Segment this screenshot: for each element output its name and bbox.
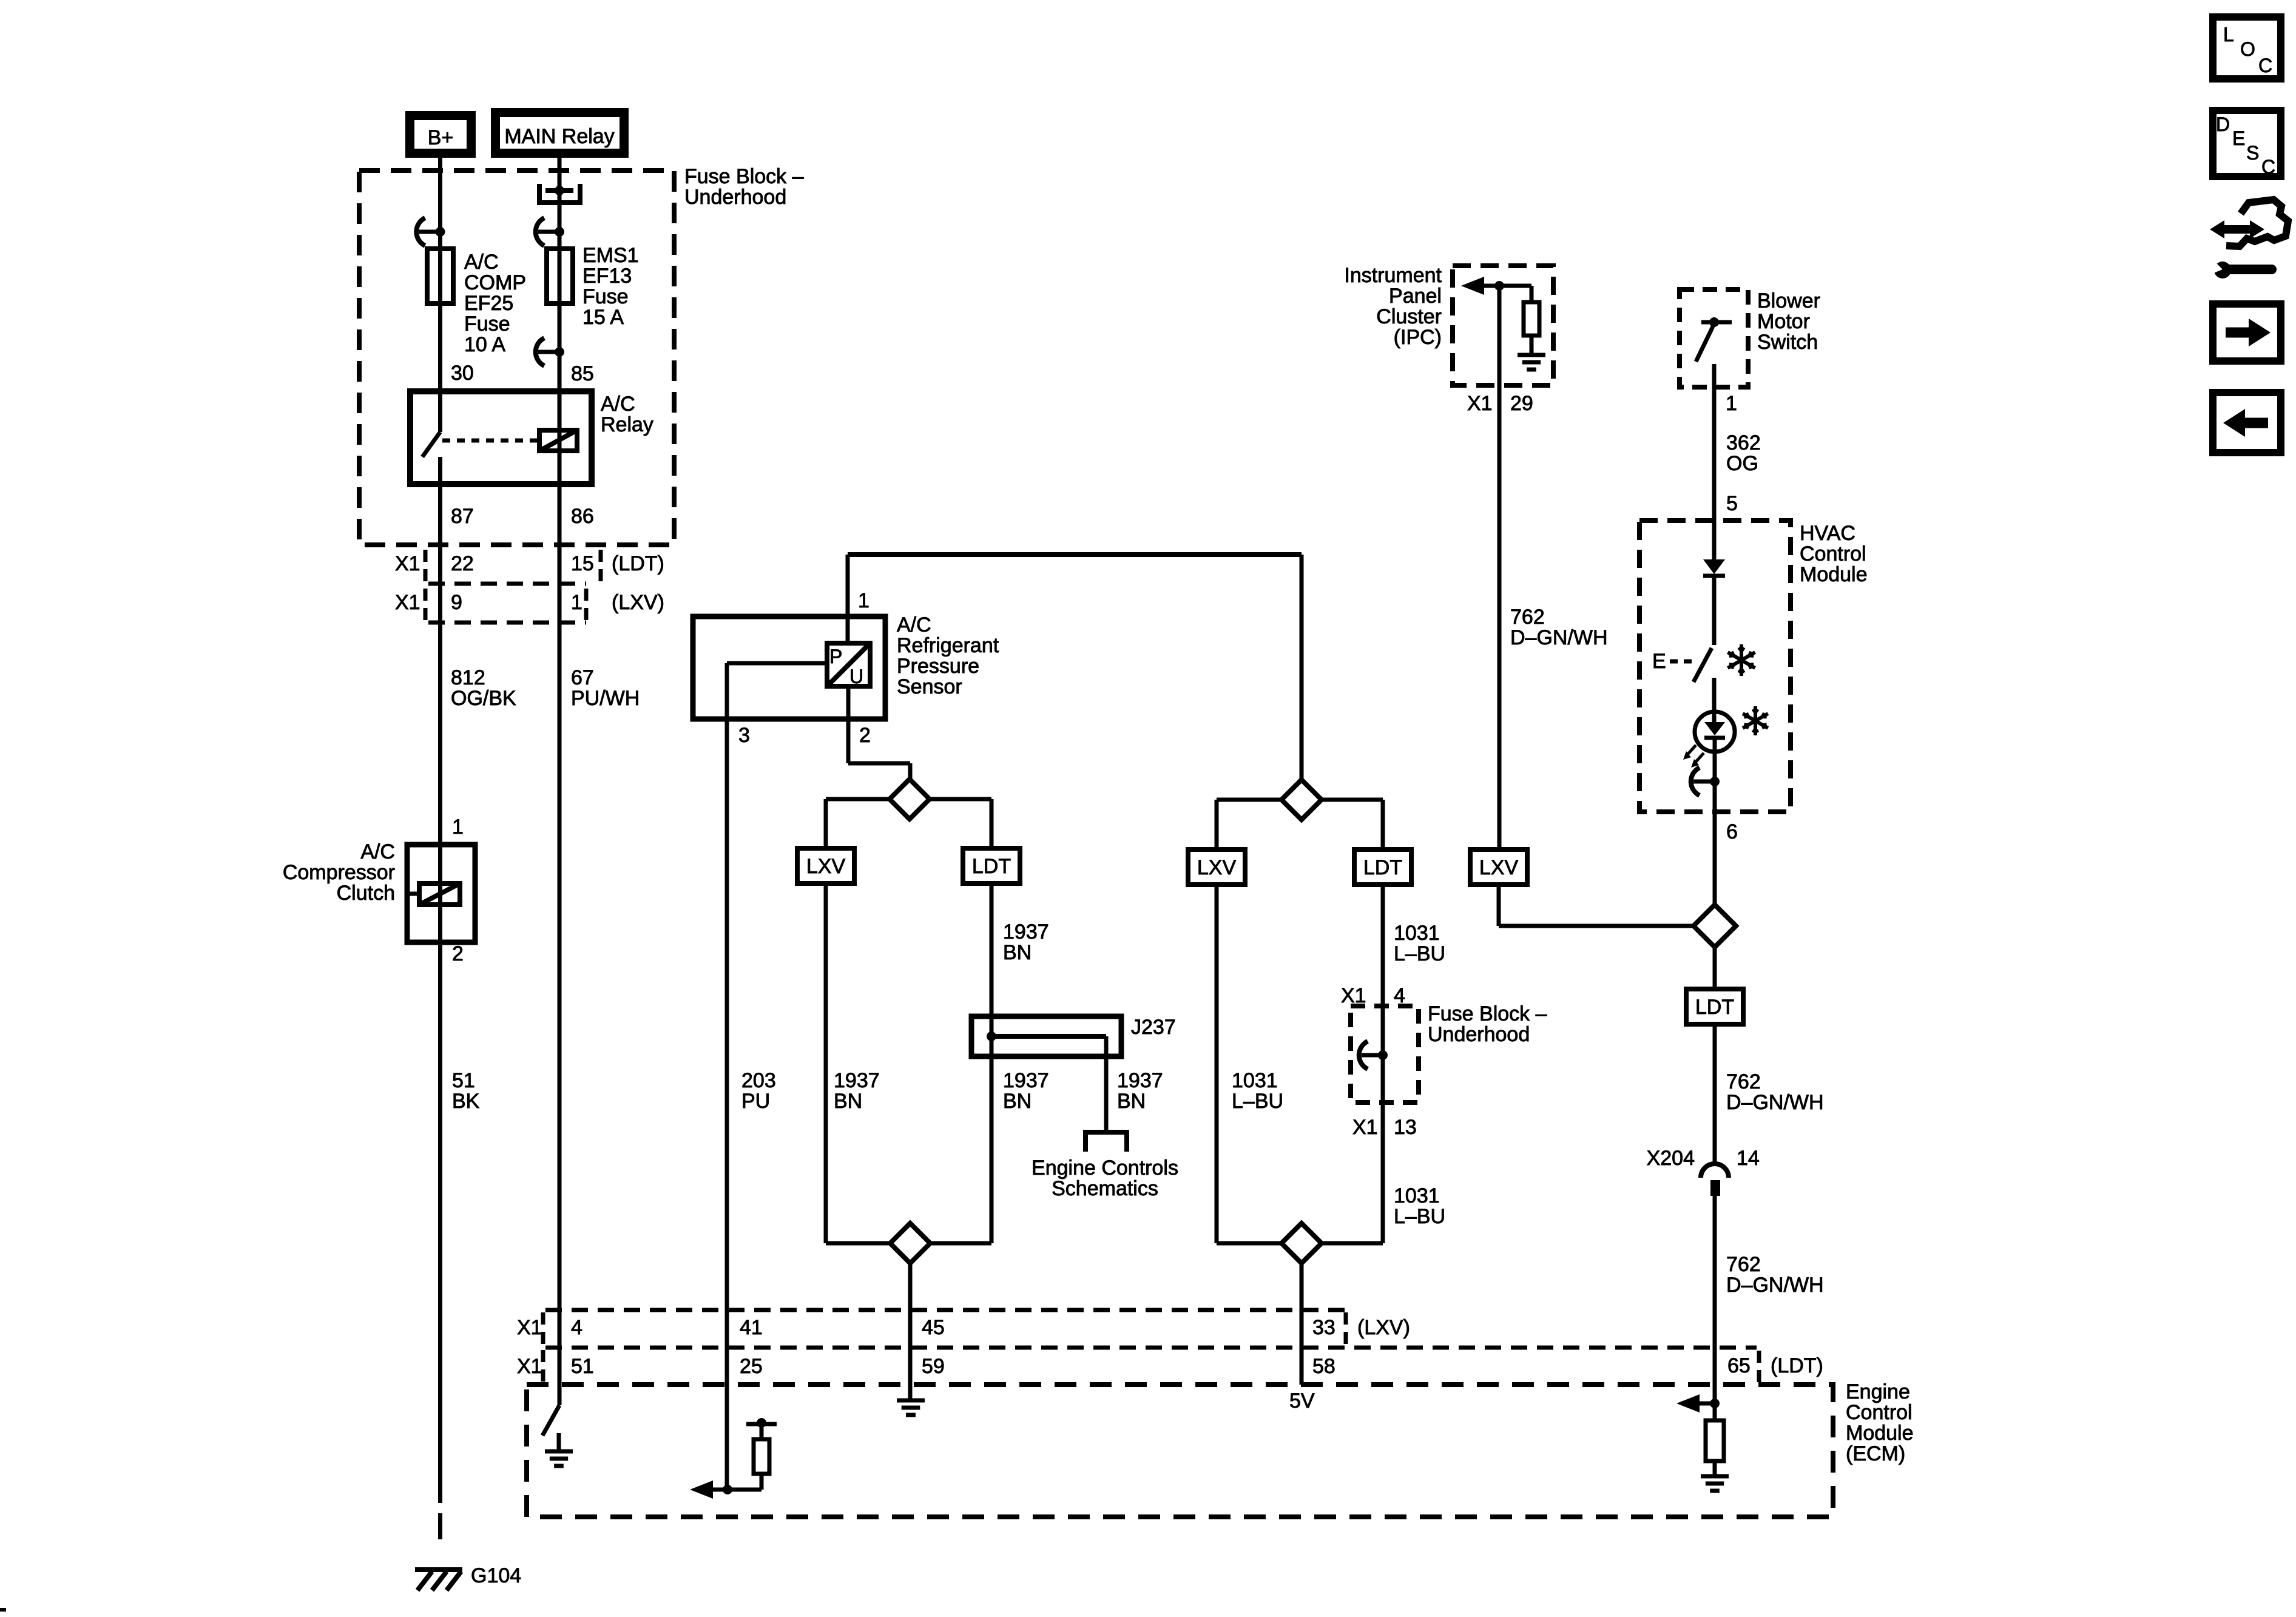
svg-text:(LDT): (LDT)	[612, 552, 664, 575]
svg-text:14: 14	[1737, 1147, 1760, 1170]
svg-text:Control: Control	[1800, 542, 1866, 565]
svg-text:13: 13	[1394, 1116, 1417, 1139]
svg-text:E: E	[2232, 127, 2245, 149]
svg-text:(LXV): (LXV)	[612, 591, 664, 614]
svg-text:X1: X1	[1352, 1116, 1378, 1139]
svg-text:(LXV): (LXV)	[1357, 1316, 1410, 1339]
svg-text:C: C	[2258, 55, 2272, 76]
svg-text:(IPC): (IPC)	[1394, 326, 1442, 349]
svg-text:BK: BK	[452, 1090, 480, 1113]
svg-text:Pressure: Pressure	[897, 655, 979, 678]
svg-text:PU: PU	[741, 1090, 770, 1113]
svg-text:5V: 5V	[1289, 1389, 1315, 1413]
svg-text:Relay: Relay	[601, 413, 653, 436]
svg-text:762: 762	[1726, 1070, 1761, 1093]
svg-text:58: 58	[1312, 1355, 1335, 1378]
svg-text:LXV: LXV	[1197, 856, 1237, 879]
svg-text:Switch: Switch	[1757, 331, 1818, 354]
svg-text:EF25: EF25	[464, 292, 513, 315]
svg-text:J237: J237	[1131, 1016, 1176, 1039]
svg-text:LXV: LXV	[806, 855, 846, 878]
svg-text:BN: BN	[834, 1090, 862, 1113]
svg-text:COMP: COMP	[464, 271, 526, 294]
svg-text:33: 33	[1312, 1316, 1335, 1339]
svg-text:41: 41	[740, 1316, 763, 1339]
svg-text:(ECM): (ECM)	[1846, 1442, 1905, 1465]
svg-text:A/C: A/C	[360, 840, 395, 863]
svg-text:362: 362	[1726, 431, 1761, 454]
svg-text:67: 67	[571, 666, 594, 689]
svg-text:X204: X204	[1647, 1147, 1695, 1170]
svg-text:29: 29	[1510, 392, 1533, 415]
svg-text:15 A: 15 A	[582, 306, 624, 329]
svg-text:L–BU: L–BU	[1394, 1205, 1445, 1228]
svg-text:OG/BK: OG/BK	[451, 687, 516, 710]
svg-text:EMS1: EMS1	[582, 244, 639, 267]
svg-text:HVAC: HVAC	[1800, 522, 1855, 545]
svg-text:BN: BN	[1003, 1090, 1032, 1113]
svg-text:Clutch: Clutch	[337, 882, 395, 905]
svg-text:LXV: LXV	[1479, 856, 1519, 879]
svg-text:762: 762	[1726, 1253, 1761, 1276]
svg-text:D–GN/WH: D–GN/WH	[1510, 626, 1608, 649]
svg-text:2: 2	[452, 942, 464, 965]
svg-text:45: 45	[922, 1316, 945, 1339]
svg-text:Motor: Motor	[1757, 310, 1810, 333]
svg-text:Fuse Block –: Fuse Block –	[1428, 1002, 1547, 1025]
svg-text:1: 1	[1726, 392, 1737, 415]
svg-text:59: 59	[922, 1355, 945, 1378]
svg-text:A/C: A/C	[897, 613, 931, 636]
svg-text:Panel: Panel	[1389, 285, 1442, 308]
svg-text:LDT: LDT	[1363, 856, 1402, 879]
svg-text:LDT: LDT	[972, 855, 1011, 878]
svg-text:X1: X1	[517, 1316, 542, 1339]
svg-text:PU/WH: PU/WH	[571, 687, 640, 710]
svg-text:1031: 1031	[1394, 1184, 1440, 1207]
svg-text:OG: OG	[1726, 452, 1758, 475]
svg-text:O: O	[2240, 38, 2255, 60]
svg-text:Underhood: Underhood	[1428, 1023, 1530, 1046]
svg-text:S: S	[2246, 142, 2259, 164]
svg-text:1: 1	[858, 589, 869, 612]
svg-text:U: U	[849, 666, 863, 687]
svg-text:51: 51	[571, 1355, 594, 1378]
svg-text:812: 812	[451, 666, 485, 689]
svg-text:L: L	[2223, 24, 2234, 46]
svg-text:203: 203	[741, 1069, 776, 1092]
svg-text:BN: BN	[1117, 1090, 1146, 1113]
svg-text:Blower: Blower	[1757, 289, 1820, 312]
svg-text:10 A: 10 A	[464, 333, 505, 356]
svg-text:6: 6	[1726, 820, 1738, 843]
svg-text:2: 2	[859, 724, 871, 747]
svg-text:4: 4	[571, 1316, 582, 1339]
svg-text:1031: 1031	[1394, 922, 1440, 945]
svg-text:P: P	[829, 646, 842, 667]
svg-text:MAIN Relay: MAIN Relay	[504, 125, 614, 148]
svg-text:Module: Module	[1800, 563, 1868, 586]
svg-text:A/C: A/C	[601, 393, 635, 416]
svg-text:762: 762	[1510, 606, 1545, 629]
svg-text:D–GN/WH: D–GN/WH	[1726, 1274, 1824, 1297]
svg-text:B+: B+	[428, 126, 454, 149]
svg-text:86: 86	[571, 505, 594, 528]
svg-text:Instrument: Instrument	[1344, 264, 1442, 287]
svg-text:5: 5	[1726, 492, 1738, 515]
svg-text:1937: 1937	[834, 1069, 880, 1092]
svg-text:Schematics: Schematics	[1052, 1177, 1158, 1200]
svg-text:1937: 1937	[1117, 1069, 1163, 1092]
svg-text:EF13: EF13	[582, 265, 632, 288]
svg-text:L–BU: L–BU	[1232, 1090, 1283, 1113]
svg-text:(LDT): (LDT)	[1771, 1354, 1823, 1377]
svg-text:30: 30	[451, 362, 474, 385]
svg-text:85: 85	[571, 362, 594, 385]
svg-text:D–GN/WH: D–GN/WH	[1726, 1091, 1824, 1114]
svg-text:Control: Control	[1846, 1401, 1913, 1424]
svg-text:51: 51	[452, 1069, 475, 1092]
svg-text:E: E	[1652, 650, 1666, 673]
svg-text:Fuse: Fuse	[582, 285, 629, 308]
svg-text:1937: 1937	[1003, 920, 1049, 944]
svg-text:BN: BN	[1003, 941, 1032, 964]
svg-text:15: 15	[571, 552, 594, 575]
svg-text:1031: 1031	[1232, 1069, 1278, 1092]
svg-text:1: 1	[571, 591, 582, 614]
svg-text:D: D	[2216, 113, 2230, 135]
svg-text:G104: G104	[471, 1564, 521, 1587]
svg-text:Compressor: Compressor	[283, 861, 395, 884]
svg-text:Fuse Block –: Fuse Block –	[684, 165, 804, 188]
svg-text:Refrigerant: Refrigerant	[897, 634, 999, 657]
svg-text:22: 22	[451, 552, 474, 575]
svg-text:Engine Controls: Engine Controls	[1032, 1156, 1178, 1180]
svg-text:Cluster: Cluster	[1376, 305, 1442, 328]
svg-text:65: 65	[1727, 1354, 1751, 1377]
svg-text:Fuse: Fuse	[464, 312, 510, 336]
svg-text:X1: X1	[517, 1355, 542, 1378]
svg-text:1: 1	[452, 815, 464, 839]
svg-text:A/C: A/C	[464, 251, 499, 274]
svg-text:X1: X1	[395, 591, 420, 614]
svg-text:25: 25	[740, 1355, 763, 1378]
svg-text:3: 3	[738, 724, 750, 747]
svg-text:Sensor: Sensor	[897, 675, 962, 698]
svg-text:LDT: LDT	[1695, 996, 1734, 1019]
svg-text:Engine: Engine	[1846, 1380, 1910, 1403]
svg-text:C: C	[2261, 156, 2275, 178]
svg-text:Module: Module	[1846, 1422, 1914, 1445]
svg-text:87: 87	[451, 505, 474, 528]
svg-text:X1: X1	[395, 552, 420, 575]
svg-text:9: 9	[451, 591, 462, 614]
svg-text:Underhood: Underhood	[684, 186, 786, 209]
svg-text:L–BU: L–BU	[1394, 942, 1445, 965]
svg-text:X1: X1	[1467, 392, 1493, 415]
svg-text:1937: 1937	[1003, 1069, 1049, 1092]
